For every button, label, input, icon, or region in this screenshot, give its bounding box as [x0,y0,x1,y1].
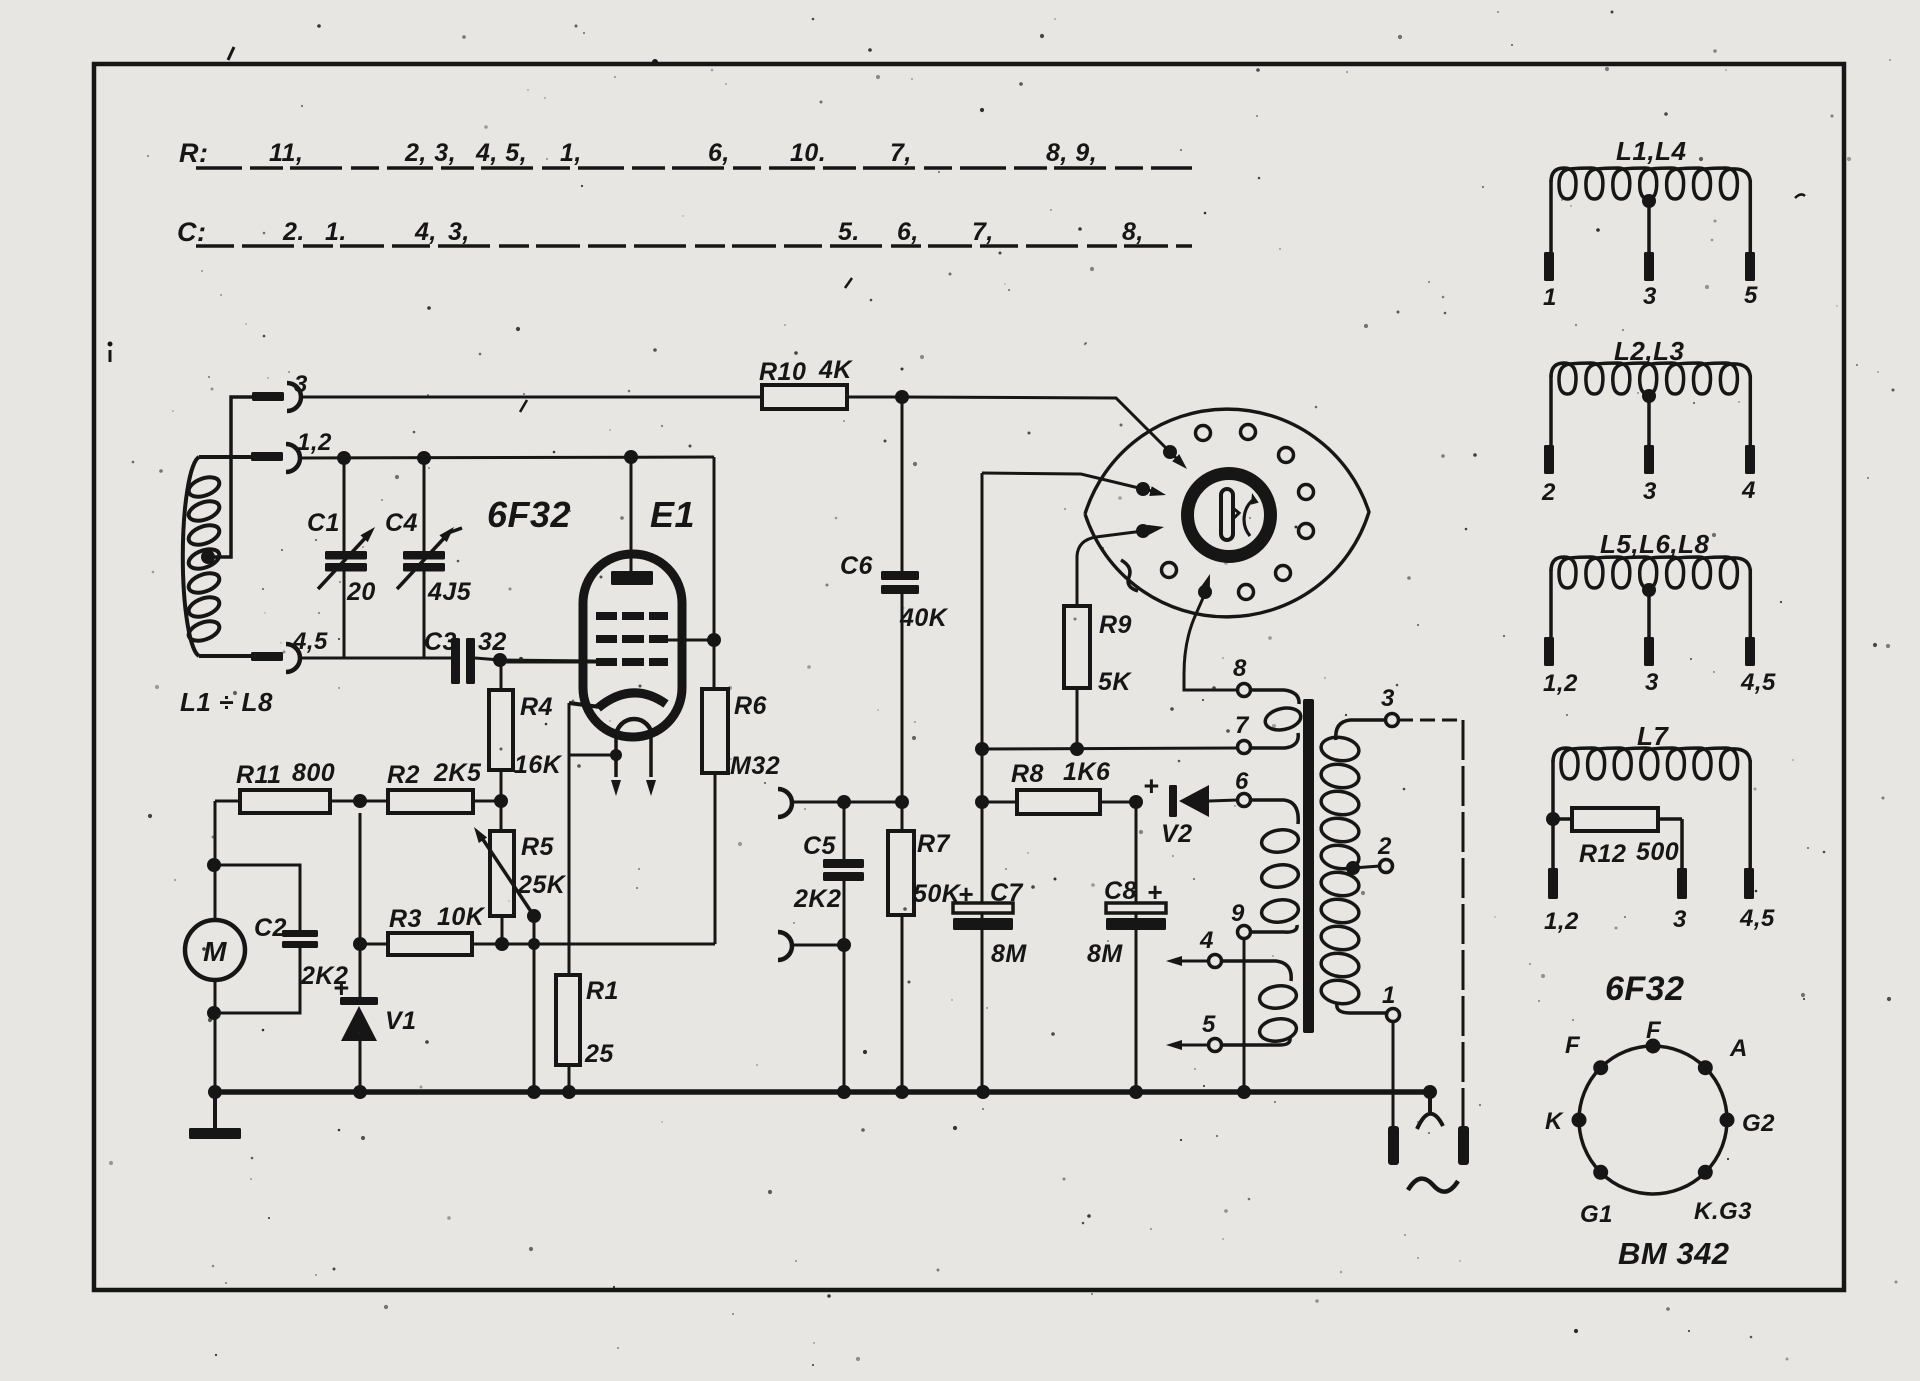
svg-text:C8: C8 [1104,877,1137,905]
svg-text:8: 8 [1233,655,1247,682]
svg-text:R8: R8 [1011,760,1044,788]
svg-text:E1: E1 [650,494,695,535]
svg-text:6: 6 [1235,768,1249,795]
svg-text:R10: R10 [759,358,806,386]
svg-text:R:: R: [179,138,209,168]
svg-text:6F32: 6F32 [487,494,571,535]
svg-text:1,2: 1,2 [297,429,332,456]
svg-text:+: + [1147,877,1163,907]
svg-text:20: 20 [346,578,376,606]
svg-text:1: 1 [1543,284,1557,311]
svg-text:L5,L6,L8: L5,L6,L8 [1600,529,1710,559]
svg-text:800: 800 [292,759,335,787]
svg-text:4,: 4, [414,218,437,246]
svg-text:R7: R7 [917,830,951,858]
svg-text:C4: C4 [385,509,418,537]
svg-text:3,: 3, [448,218,470,246]
svg-text:2K5: 2K5 [433,759,482,787]
svg-text:C6: C6 [840,552,874,580]
svg-text:3: 3 [1643,283,1657,310]
svg-text:2, 3,: 2, 3, [404,139,456,167]
svg-text:4,5: 4,5 [1739,905,1775,932]
svg-text:1: 1 [1382,982,1396,1009]
svg-text:3: 3 [1381,685,1395,712]
svg-text:M32: M32 [730,752,780,780]
svg-text:R12: R12 [1579,840,1626,868]
svg-text:3: 3 [1673,906,1687,933]
svg-text:L1 ÷ L8: L1 ÷ L8 [180,687,273,717]
svg-text:1,2: 1,2 [1543,670,1578,697]
svg-text:4,5: 4,5 [1740,669,1776,696]
svg-text:32: 32 [478,628,507,656]
svg-text:2: 2 [1377,833,1392,860]
svg-text:+: + [958,879,974,909]
svg-text:5.: 5. [838,218,860,246]
svg-text:1,2: 1,2 [1544,908,1579,935]
svg-text:3: 3 [1645,669,1659,696]
svg-text:7: 7 [1235,712,1250,739]
svg-text:10.: 10. [790,139,826,167]
svg-text:F: F [1646,1017,1662,1044]
svg-text:G1: G1 [1580,1201,1613,1228]
svg-text:R5: R5 [521,833,555,861]
svg-text:10K: 10K [437,903,486,931]
svg-text:11,: 11, [269,139,303,167]
svg-text:+: + [1143,771,1159,801]
svg-text:3: 3 [1643,478,1657,505]
svg-text:8M: 8M [1087,940,1123,968]
svg-text:BM 342: BM 342 [1618,1236,1730,1271]
svg-text:8M: 8M [991,940,1027,968]
svg-text:1.: 1. [325,218,347,246]
svg-text:25: 25 [584,1040,614,1068]
svg-text:R4: R4 [520,693,553,721]
svg-text:R6: R6 [734,692,768,720]
svg-text:C7: C7 [990,879,1024,907]
svg-text:F: F [1565,1032,1581,1059]
svg-text:G2: G2 [1742,1110,1775,1137]
svg-text:2K2: 2K2 [793,885,841,913]
svg-text:M: M [203,936,227,967]
svg-text:C5: C5 [803,832,837,860]
svg-text:R3: R3 [389,905,422,933]
svg-text:R11: R11 [236,761,282,789]
svg-text:6,: 6, [708,139,730,167]
svg-text:40K: 40K [899,604,949,632]
svg-text:6F32: 6F32 [1605,970,1685,1008]
svg-text:7,: 7, [972,218,994,246]
svg-text:V2: V2 [1161,820,1193,848]
svg-text:16K: 16K [514,751,563,779]
svg-text:5: 5 [1744,282,1758,309]
svg-text:4K: 4K [818,356,853,384]
svg-text:4,5: 4,5 [292,628,328,655]
svg-text:C2: C2 [254,914,287,942]
svg-text:1K6: 1K6 [1063,758,1111,786]
svg-text:4J5: 4J5 [427,578,472,606]
svg-text:6,: 6, [897,218,919,246]
svg-text:L1,L4: L1,L4 [1616,136,1686,166]
svg-text:8,: 8, [1122,218,1144,246]
svg-text:8, 9,: 8, 9, [1046,139,1097,167]
svg-text:C:: C: [177,217,207,247]
svg-text:R9: R9 [1099,611,1132,639]
svg-text:7,: 7, [890,139,912,167]
svg-text:C3: C3 [424,628,457,656]
svg-text:K.G3: K.G3 [1694,1198,1752,1225]
svg-text:C1: C1 [307,509,340,537]
svg-text:A: A [1729,1035,1748,1062]
svg-text:R1: R1 [586,977,619,1005]
svg-text:9: 9 [1231,900,1245,927]
svg-text:V1: V1 [385,1007,417,1035]
svg-text:4, 5,: 4, 5, [475,139,527,167]
svg-text:4: 4 [1199,927,1214,954]
svg-text:K: K [1545,1108,1564,1135]
svg-text:4: 4 [1741,477,1756,504]
svg-text:R2: R2 [387,761,420,789]
svg-text:25K: 25K [517,871,567,899]
svg-text:500: 500 [1636,838,1679,866]
svg-text:1,: 1, [560,139,582,167]
svg-text:3: 3 [294,371,308,398]
svg-text:5K: 5K [1098,668,1132,696]
svg-text:5: 5 [1202,1011,1216,1038]
svg-text:2: 2 [1541,479,1556,506]
svg-text:2.: 2. [282,218,305,246]
